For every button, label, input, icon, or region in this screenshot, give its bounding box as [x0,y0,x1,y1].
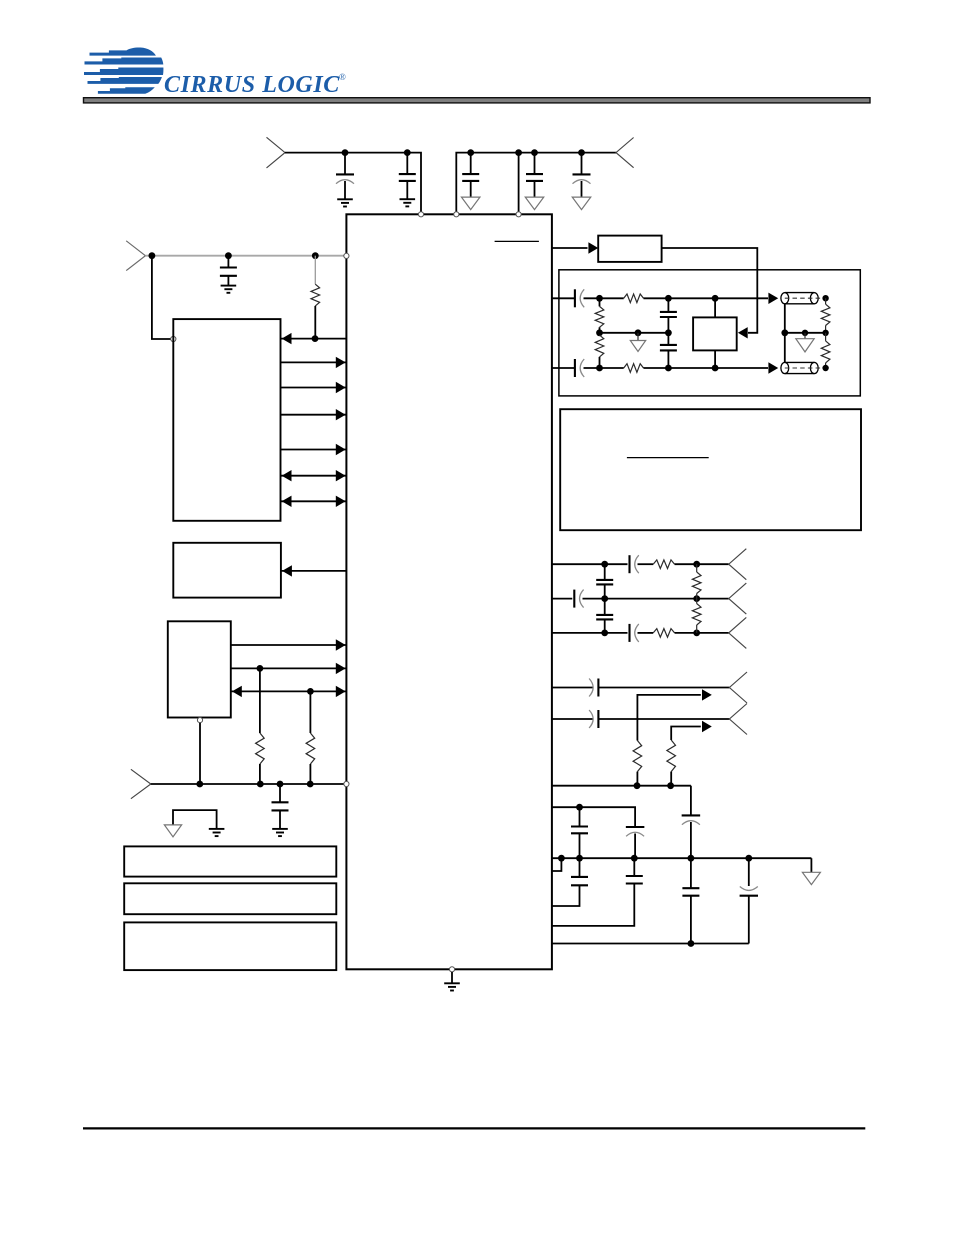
capacitor C8 (series, polarized) [574,289,576,307]
connector P1 (coax) [785,292,815,294]
ground DGND U1 [451,972,453,983]
capacitor C14 (series, polarized) [628,624,630,642]
mute circuit block U3 [173,543,281,598]
node top rail to U1 pin 2 [454,212,459,217]
wire gray net [145,255,344,257]
capacitor C7 [279,784,281,802]
wire clock row 2 [231,667,347,669]
wire VQ stub [552,858,562,871]
capacitor C10 [667,333,669,345]
arrow clock row 1 [336,639,346,650]
capacitor C15 [604,564,606,580]
capacitor C6 [225,252,232,259]
wire control row 6 (bidirectional) [281,475,347,477]
capacitor C5 (polarized) [578,149,585,156]
wire top rail drop to U1 pin 3 [518,153,520,212]
ground DGND C1 [337,198,353,200]
note box 4 [560,409,861,530]
arrow into U1 row 4 [336,409,346,420]
arrow mute sense 1 [702,689,712,700]
block U5 [598,236,661,262]
node ground rail to U1 left pin [344,781,349,786]
arrow into U1 row 2 [336,357,346,368]
header rule bar [84,98,871,103]
note box 3 [124,922,336,970]
capacitor C2 [404,149,411,156]
wire control row 2 [281,361,347,363]
capacitor C23 [633,858,635,876]
arrow mute sense 2 [702,721,712,732]
wire VREF drop [690,786,692,816]
ground tie AGND-DGND [173,810,217,829]
resistor R13 [696,599,698,604]
ground DGND C7 [272,828,288,830]
wire audio out row 2 [552,598,572,600]
arrow into U5 [588,242,598,253]
wire control row 7 (bidirectional) [281,500,347,502]
ground AGND C5 [572,197,591,210]
wire U4 ground lead [199,723,201,784]
ground AGND shield [804,333,806,339]
note box 2 [124,883,336,914]
wire line out row 5 [552,718,594,720]
arrow clock row 2 [336,663,346,674]
capacitor C20 (polarized) [626,826,645,828]
note box 4 underline [627,457,709,459]
resistor R12 [696,564,698,572]
wire bottom filter return [552,943,749,945]
wire X1 bottom lead [714,350,716,368]
wire ground rail [151,783,344,785]
capacitor C24 [690,858,692,888]
connector J2 (top-right power input chevron) [616,138,634,168]
resistor R3 [309,691,311,733]
arrow into U1 row 5 [336,444,346,455]
node top rail to U1 pin 3 [516,212,521,217]
wire control row 4 [281,414,347,416]
resistor R5 chain top [599,298,601,306]
resistor R10 [653,560,674,569]
capacitor C16 [604,599,606,615]
capacitor C21 [579,807,581,826]
resistor R6 chain bottom [599,333,601,335]
wire mute sense 2 [671,727,701,741]
ground AGND VQ rail [810,858,812,872]
arrow into U1 row 3 [336,382,346,393]
ground DGND C2 [400,198,416,200]
ground AGND C3 [461,197,480,210]
resistor R4 [624,294,644,303]
connector J1 (top-left power input chevron) [267,137,286,168]
footer rule [83,1127,865,1129]
capacitor C18 (series, polarized, arc left) [597,710,599,728]
arrow into P2 [768,362,778,373]
arrow into X1 [738,327,748,338]
wire top rail left segment [285,153,421,212]
connector P2 (coax) [785,361,815,363]
capacitor C22 [579,858,581,877]
connector J7 chevron [729,617,747,648]
wire VREF rail [552,785,691,787]
connector J5 chevron [729,549,747,580]
wire clock row 3 (bidirectional) [231,690,347,692]
svg-text:®: ® [339,72,346,82]
resistor R7 [624,364,644,373]
resistor R1 (pull-up) [312,252,319,259]
SPDIF section boundary box [559,270,860,396]
wire reset branch to controller [149,252,156,259]
wire SPDIF top line cont [644,297,769,299]
resistor R2 [259,668,261,733]
node controller left pin [171,336,176,341]
node top rail to U1 pin [418,212,423,217]
capacitor C9 [667,298,669,312]
arrow into U3 [282,565,292,576]
capacitor C11 (series, polarized) [574,359,576,377]
wire coax shield tie [784,304,786,363]
wire audio out row 3 [552,632,628,634]
wire X1 top lead [714,298,716,317]
wire mute sense 1 [637,695,700,741]
wire mute drive [281,570,347,572]
pin name overbar inside U1 [495,240,539,242]
capacitor C13 (series, polarized) [573,590,575,608]
capacitor C19 (polarized) [682,814,701,816]
wire clock row 1 [231,644,347,646]
connector J8 chevron [729,672,747,703]
wire top rail right segment [456,153,616,212]
wire VQ rail [552,857,812,859]
resistor R14 [633,741,642,772]
resistor R11 [653,629,674,638]
node U4 bottom pin [197,718,202,723]
resistor R8 [825,298,827,304]
capacitor C4 [531,149,538,156]
note box 1 [124,846,336,876]
crystal X1 block [693,317,737,350]
capacitor C1 (polarized) [342,149,349,156]
ground AGND mid tie [637,333,639,341]
wire SPDIF bottom line [552,367,575,369]
ground AGND C4 [525,197,544,210]
wire control row 1 [281,338,347,340]
node U1 bottom ground pin [449,967,454,972]
svg-text:CIRRUS LOGIC: CIRRUS LOGIC [164,72,340,98]
oscillator block U4 [168,621,231,717]
wire line out row 4 [552,687,594,689]
capacitor C3 [467,149,474,156]
controller block U2 [173,319,280,521]
arrow into P1 [768,293,778,304]
node gray net to U1 left pin [344,253,349,258]
wire SPDIF top line [552,297,575,299]
resistor R15 [667,740,676,772]
connector J6 chevron [729,583,747,614]
wire audio out row 1 [552,563,628,565]
capacitor C12 (series, polarized) [628,555,630,573]
capacitor C17 (series, polarized, arc left) [597,679,599,697]
ground DGND C6 [221,285,237,287]
resistor R9 [825,333,827,341]
wire control row 3 [281,387,347,389]
wire FILT line [552,807,635,827]
IC U1 (codec) [346,214,552,969]
connector J3 (left reset input chevron) [126,241,145,271]
connector J9 chevron [729,704,747,735]
logo Cirrus Logic globe [84,47,163,93]
wire mid tie [600,332,669,334]
wire control row 5 [281,449,347,451]
wire U5 feedback to crystal [662,248,758,333]
capacitor C25 (polarized, arc top) [748,858,750,886]
wire U1 to U5 [552,247,588,249]
connector J4 (bottom-left chevron) [131,769,151,798]
arrow into U2 row 1 [282,333,292,344]
